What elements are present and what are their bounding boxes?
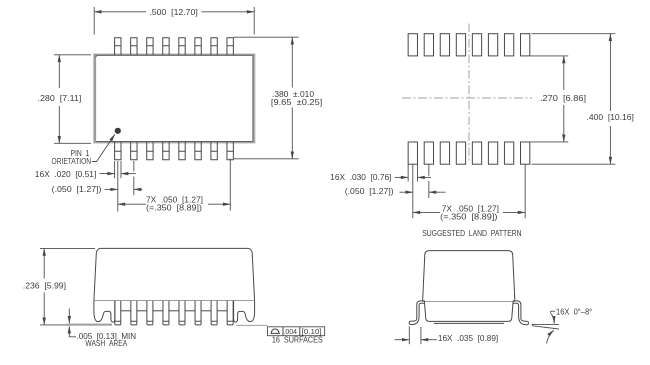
dimension .500 [12.70]: [94, 7, 254, 35]
dimension (.050) pitch: [52, 161, 143, 212]
svg-text:SUGGESTED LAND PATTERN: SUGGESTED LAND PATTERN: [422, 229, 522, 238]
flatness feature control frame: [268, 327, 325, 345]
top view pin 11 (top row): [195, 38, 201, 55]
land pad 11 (top row): [488, 34, 497, 56]
dimension 16X .035: [395, 326, 499, 344]
body bottom edge segment 1: [121, 310, 131, 312]
side view lead 5: [179, 301, 185, 325]
top view pin 15 (top row): [131, 38, 137, 55]
svg-text:.270 [6.86]: .270 [6.86]: [540, 94, 586, 103]
lead angle callout 16X 0-8 deg: [532, 307, 593, 343]
flatness control frame box: [268, 327, 325, 336]
svg-text:[9.65 ±0.25]: [9.65 ±0.25]: [271, 98, 322, 107]
top view pin 4 (bottom row): [163, 142, 169, 160]
dimension .400 [10.16]: [532, 34, 634, 165]
land pad 10 (top row): [504, 34, 513, 56]
top view pin 3 (bottom row): [147, 142, 153, 160]
top pins: [115, 38, 234, 55]
top view pin 7 (bottom row): [211, 142, 217, 160]
top view pin 16 (top row): [115, 38, 121, 55]
land pattern top pads row: [408, 34, 530, 56]
land pad 4 (bottom row): [456, 142, 465, 164]
land pad 15 (top row): [424, 34, 433, 56]
land pad 5 (bottom row): [472, 142, 481, 164]
seating plane extension to flatness frame: [236, 324, 268, 326]
side view lead 8: [227, 301, 233, 325]
side view lead 3: [147, 301, 153, 325]
top view pin 13 (top row): [163, 38, 169, 55]
dimension 16X .030: [330, 164, 431, 182]
svg-text:(=.350 [8.89]): (=.350 [8.89]): [440, 212, 498, 221]
land pad 16 (top row): [408, 34, 417, 56]
svg-text:ORIETATION: ORIETATION: [52, 157, 92, 166]
body bottom edge segment 5: [185, 310, 195, 312]
dimension .270 [6.86]: [530, 56, 586, 142]
svg-text:(.050 [1.27]): (.050 [1.27]): [345, 187, 394, 196]
land pad 14 (top row): [440, 34, 449, 56]
land pad 2 (bottom row): [424, 142, 433, 164]
side view leads (8): [115, 301, 233, 325]
svg-text:.500 [12.70]: .500 [12.70]: [149, 8, 197, 17]
body bottom edge segment 7: [217, 310, 227, 312]
dimension .236 [5.99]: [23, 248, 95, 325]
svg-text:WASH AREA: WASH AREA: [85, 339, 127, 348]
svg-text:.400 [10.16]: .400 [10.16]: [587, 113, 634, 122]
side view lead 4: [163, 301, 169, 325]
land pad 12 (top row): [472, 34, 481, 56]
end view right lead (gull wing): [513, 301, 529, 323]
top view pin 10 (top row): [211, 38, 217, 55]
body bottom edge segment 6: [201, 310, 211, 312]
end view gull-wing leads: [409, 301, 528, 325]
svg-text:16X .035 [0.89]: 16X .035 [0.89]: [438, 334, 498, 343]
seating plane line: [40, 324, 67, 326]
dimension (.050) pitch: [345, 164, 446, 218]
dimension 7X .050 (=.350): [118, 159, 231, 213]
land pad 6 (bottom row): [488, 142, 497, 164]
top view pin 2 (bottom row): [131, 142, 137, 160]
body bottom edge segment 2: [137, 310, 147, 312]
svg-text:(.050 [1.27]): (.050 [1.27]): [52, 185, 102, 194]
side view lead 7: [211, 301, 217, 325]
top view pin 12 (top row): [179, 38, 185, 55]
svg-text:.236 [5.99]: .236 [5.99]: [23, 282, 66, 291]
dimension 16X .020: [35, 161, 136, 179]
land pad 1 (bottom row): [408, 142, 417, 164]
land pad 3 (bottom row): [440, 142, 449, 164]
bottom pins: [115, 142, 234, 160]
side view lead 1: [115, 301, 121, 325]
land pattern bottom pads row: [408, 142, 530, 164]
side view body outline: [94, 248, 255, 300]
side view lead 6: [195, 301, 201, 325]
side view body bottom left end: [94, 301, 115, 323]
end view parting line: [423, 300, 515, 302]
horizontal centerline: [402, 97, 532, 99]
dimension .380 ±.010: [234, 37, 323, 159]
end view bottom ledge: [434, 322, 504, 324]
dimension 7X .050 (=.350): [413, 164, 525, 221]
vertical centerline: [468, 24, 470, 162]
top view pin 6 (bottom row): [195, 142, 201, 160]
land pad 9 (top row): [521, 34, 530, 56]
end view left lead (gull wing): [409, 301, 425, 323]
svg-text:.280 [7.11]: .280 [7.11]: [38, 94, 82, 103]
body bottom edge segment 4: [169, 310, 179, 312]
pin 1 dot: [115, 128, 121, 134]
body bottom edge segments between leads: [121, 310, 227, 312]
centerlines: [402, 24, 532, 162]
top view pin 5 (bottom row): [179, 142, 185, 160]
top view pin 9 (top row): [227, 38, 233, 55]
land pad 13 (top row): [456, 34, 465, 56]
side view lead 2: [131, 301, 137, 325]
package body outline: [94, 54, 255, 143]
surface profile symbol: [270, 329, 280, 333]
side view parting line: [94, 300, 255, 302]
end view body top: [423, 251, 515, 324]
end view body lower half: [424, 301, 513, 321]
land pad 8 (bottom row): [521, 142, 530, 164]
side view body top: [94, 248, 255, 322]
svg-text:16 SURFACES: 16 SURFACES: [272, 335, 323, 344]
land pad 7 (bottom row): [504, 142, 513, 164]
dimension .280 [7.11]: [38, 55, 92, 144]
pin1 leader and label: [52, 134, 115, 166]
body bottom edge segment 3: [153, 310, 163, 312]
side view body bottom right end: [234, 301, 255, 323]
top view pin 1 (bottom row): [115, 142, 121, 160]
svg-text:16X 0°–8°: 16X 0°–8°: [556, 307, 592, 316]
dimension .005 MIN wash area: [69, 309, 136, 349]
top view pin 8 (bottom row): [227, 142, 233, 160]
wash area bar: [67, 324, 113, 326]
svg-text:16X .020 [0.51]: 16X .020 [0.51]: [35, 170, 97, 179]
seating plane + wash area: [40, 324, 268, 326]
svg-text:16X .030 [0.76]: 16X .030 [0.76]: [330, 173, 391, 182]
svg-text:(=.350 [8.89]): (=.350 [8.89]): [146, 203, 202, 212]
title: [422, 229, 522, 238]
top view pin 14 (top row): [147, 38, 153, 55]
end view body outline: [423, 251, 515, 302]
